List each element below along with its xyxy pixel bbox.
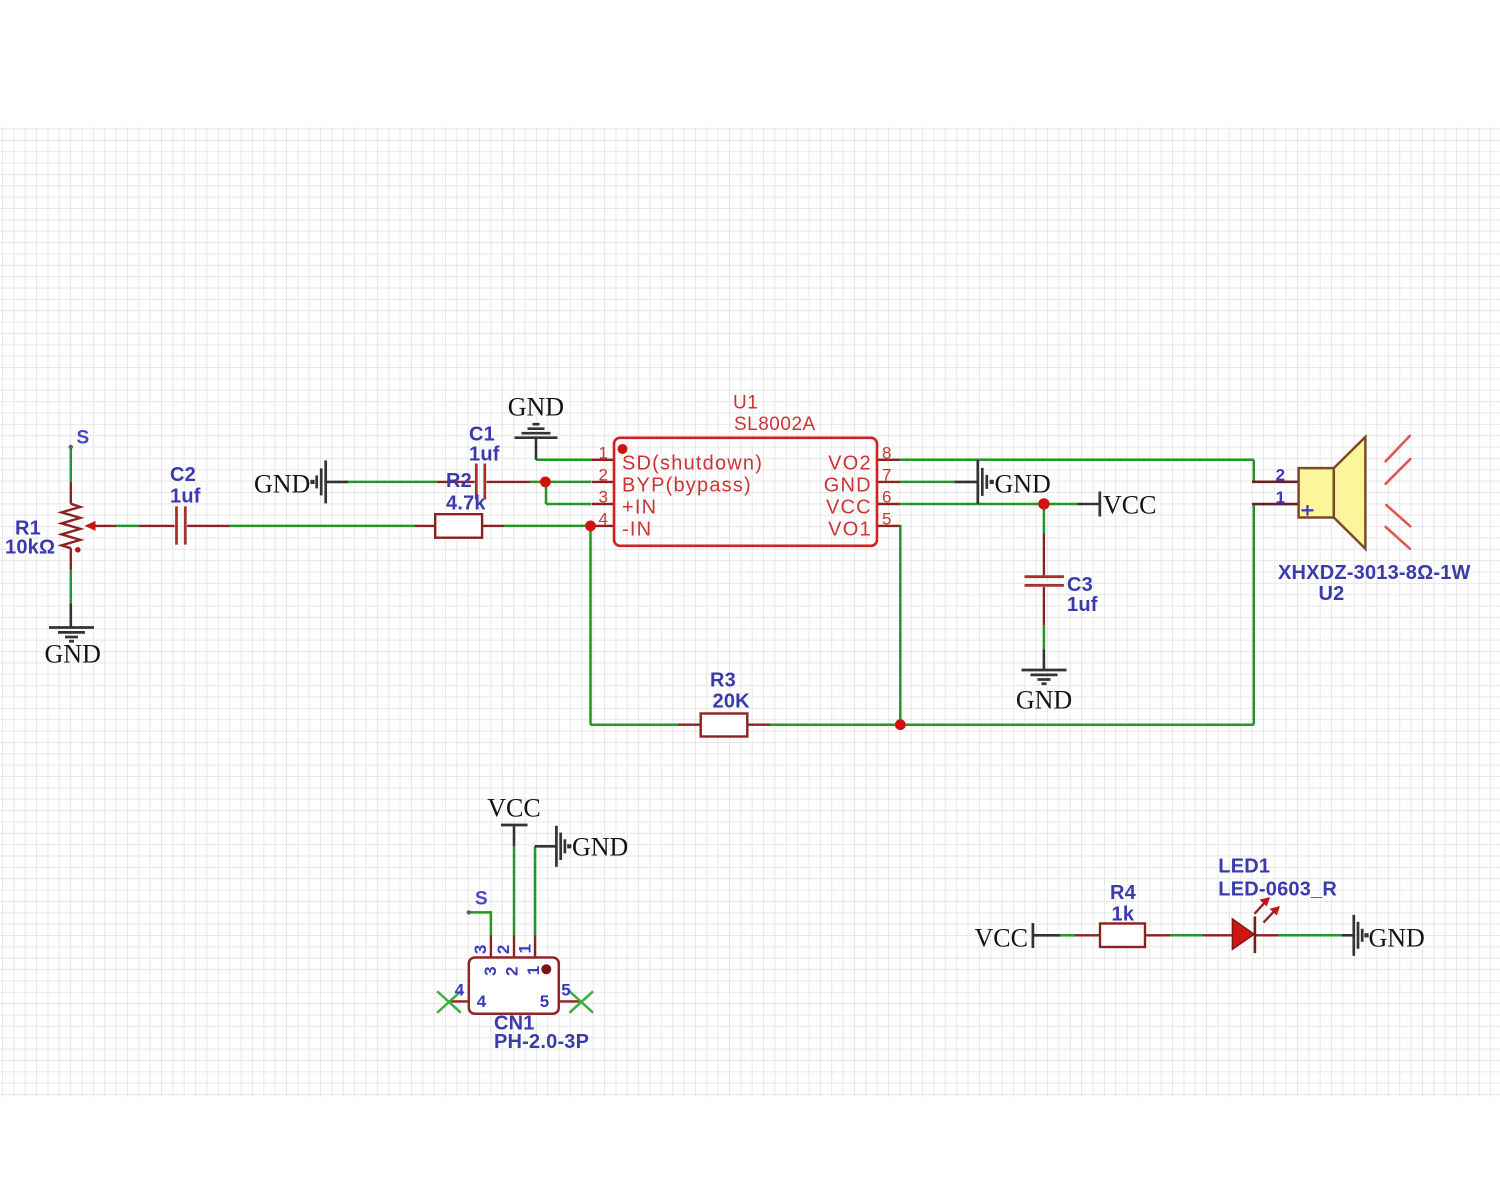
svg-text:BYP(bypass): BYP(bypass) [622,475,752,497]
svg-text:7: 7 [882,465,891,484]
svg-text:VCC: VCC [826,497,872,519]
svg-text:VCC: VCC [1103,491,1156,520]
svg-text:1: 1 [1276,488,1285,507]
svg-text:5: 5 [561,981,570,1000]
svg-text:10kΩ: 10kΩ [5,537,55,559]
svg-text:R4: R4 [1110,882,1137,904]
svg-text:2: 2 [599,465,608,484]
svg-text:4.7k: 4.7k [446,493,486,515]
svg-text:GND: GND [824,475,872,497]
svg-text:SL8002A: SL8002A [734,414,816,435]
svg-text:3: 3 [599,488,608,507]
svg-text:3: 3 [481,966,500,975]
svg-text:1: 1 [515,944,534,953]
svg-text:VO1: VO1 [828,519,872,541]
svg-text:2: 2 [503,966,522,975]
svg-text:GND: GND [508,392,564,421]
svg-text:5: 5 [540,992,549,1011]
svg-text:C2: C2 [170,464,196,486]
svg-text:PH-2.0-3P: PH-2.0-3P [494,1031,589,1053]
svg-text:8: 8 [882,443,891,462]
svg-text:2: 2 [494,945,513,954]
svg-text:2: 2 [1276,466,1285,485]
svg-text:S: S [475,889,488,910]
svg-text:VCC: VCC [975,924,1028,953]
svg-text:C3: C3 [1067,574,1093,596]
svg-text:XHXDZ-3013-8Ω-1W: XHXDZ-3013-8Ω-1W [1278,562,1471,584]
svg-text:1k: 1k [1112,904,1135,926]
svg-text:LED1: LED1 [1218,856,1270,878]
svg-text:R3: R3 [710,670,736,692]
svg-text:GND: GND [1369,924,1425,953]
svg-text:1uf: 1uf [469,444,500,466]
svg-text:GND: GND [572,833,628,862]
svg-text:6: 6 [882,488,891,507]
svg-text:GND: GND [45,640,101,669]
svg-text:-IN: -IN [622,519,652,541]
svg-text:1: 1 [524,966,543,975]
svg-text:GND: GND [1016,686,1072,715]
svg-text:LED-0603_R: LED-0603_R [1218,879,1337,901]
svg-text:GND: GND [254,470,310,499]
svg-text:4: 4 [455,981,465,1000]
svg-text:VCC: VCC [487,794,540,823]
svg-text:3: 3 [471,945,490,954]
svg-text:C1: C1 [469,424,495,446]
svg-text:20K: 20K [713,691,751,713]
svg-text:U2: U2 [1319,583,1345,605]
svg-text:U1: U1 [733,393,758,414]
svg-text:R2: R2 [446,470,472,492]
svg-text:1: 1 [599,443,608,462]
svg-text:VO2: VO2 [828,453,872,475]
svg-text:S: S [77,428,90,449]
svg-text:SD(shutdown): SD(shutdown) [622,453,763,475]
svg-text:+IN: +IN [622,497,657,519]
svg-text:5: 5 [882,509,891,528]
svg-text:GND: GND [995,470,1051,499]
svg-text:1uf: 1uf [1067,594,1098,616]
svg-text:4: 4 [477,992,487,1011]
svg-text:4: 4 [599,509,608,528]
svg-text:1uf: 1uf [170,486,201,508]
